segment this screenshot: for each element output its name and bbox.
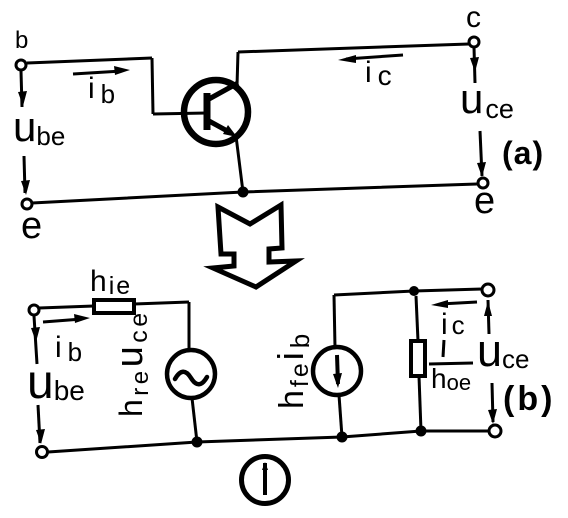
current arrow i_c (b) bbox=[431, 300, 477, 308]
wire corner down to source bbox=[188, 302, 191, 350]
current arrow i_b (b) bbox=[43, 314, 90, 323]
figure mark circled 1 bbox=[242, 457, 289, 504]
voltage arrow u_be (b) lower stub bbox=[36, 405, 45, 444]
transistor Q1 body bbox=[184, 80, 248, 144]
voltage arrow u_ce upper stub bbox=[470, 47, 479, 83]
bottom wire of (a) bbox=[32, 184, 477, 203]
svg-text:(a): (a) bbox=[502, 135, 544, 171]
junction emitter node bbox=[238, 187, 249, 198]
voltage arrow u_be lower stub bbox=[21, 156, 30, 195]
label 1/h_oe fraction bar bbox=[429, 363, 473, 364]
junction top of h_oe bbox=[409, 286, 419, 296]
wire base lead bbox=[153, 113, 207, 114]
voltage arrow u_be (b) upper stub bbox=[31, 316, 40, 364]
terminal c bbox=[469, 37, 479, 47]
terminal e left bbox=[22, 199, 32, 209]
terminal c' top-right bbox=[482, 284, 494, 296]
wire source top up bbox=[334, 295, 335, 348]
terminal e right bbox=[478, 178, 488, 188]
current arrow i_c bbox=[338, 55, 403, 63]
current source arrow bbox=[333, 355, 342, 388]
voltage arrow u_ce (b) lower stub pointing down bbox=[488, 383, 497, 424]
wire source bottom down bbox=[339, 395, 342, 437]
svg-text:b: b bbox=[15, 27, 28, 54]
wire corner down bbox=[152, 58, 153, 114]
label 1/h_oe numerator bbox=[443, 340, 444, 357]
svg-text:c: c bbox=[466, 1, 481, 34]
wire h_oe to bottom rail bbox=[419, 376, 421, 431]
current arrow i_b bbox=[73, 66, 130, 75]
emitter wire bbox=[236, 136, 243, 192]
junction under current source bbox=[337, 432, 348, 443]
collector wire up bbox=[237, 52, 238, 86]
svg-text:e: e bbox=[21, 205, 42, 247]
svg-text:(b): (b) bbox=[503, 380, 555, 418]
terminal e' bottom-left bbox=[37, 447, 48, 458]
svg-text:e: e bbox=[474, 180, 495, 222]
wire b to corner bbox=[27, 58, 152, 63]
transistor Q1 base bar bbox=[204, 93, 211, 130]
wire h_ie to corner bbox=[134, 302, 189, 304]
junction under source bbox=[192, 437, 203, 448]
transistor Q1 collector lead bbox=[209, 83, 238, 99]
voltage source h_re*u_ce body bbox=[167, 350, 215, 398]
svg-text:ib: ib bbox=[55, 331, 82, 367]
wire terminal to h_ie bbox=[39, 306, 94, 308]
terminal e' bottom-right bbox=[489, 425, 501, 437]
wire source to bottom rail bbox=[192, 398, 197, 442]
current source h_fe*i_b body bbox=[313, 347, 361, 395]
voltage arrow u_be upper stub bbox=[18, 71, 27, 107]
wire junction to h_oe bbox=[416, 296, 418, 341]
terminal b bbox=[16, 60, 26, 70]
junction under h_oe bbox=[416, 426, 427, 437]
svg-text:ic: ic bbox=[365, 56, 392, 91]
top wire to c bbox=[238, 44, 469, 52]
resistor h_ie bbox=[94, 300, 134, 313]
terminal b' top-left bbox=[29, 305, 39, 315]
svg-text:ic: ic bbox=[441, 308, 465, 341]
voltage source sine symbol bbox=[175, 372, 207, 385]
voltage arrow u_ce lower stub bbox=[477, 131, 486, 177]
transistor Q1 emitter lead bbox=[209, 121, 237, 137]
transform arrow symbol bbox=[213, 205, 296, 287]
top rail of (b) bbox=[334, 289, 482, 295]
bottom rail of (b) bbox=[48, 431, 489, 452]
voltage arrow u_ce (b) upper stub pointing up bbox=[484, 300, 492, 334]
resistor h_oe bbox=[411, 341, 425, 376]
